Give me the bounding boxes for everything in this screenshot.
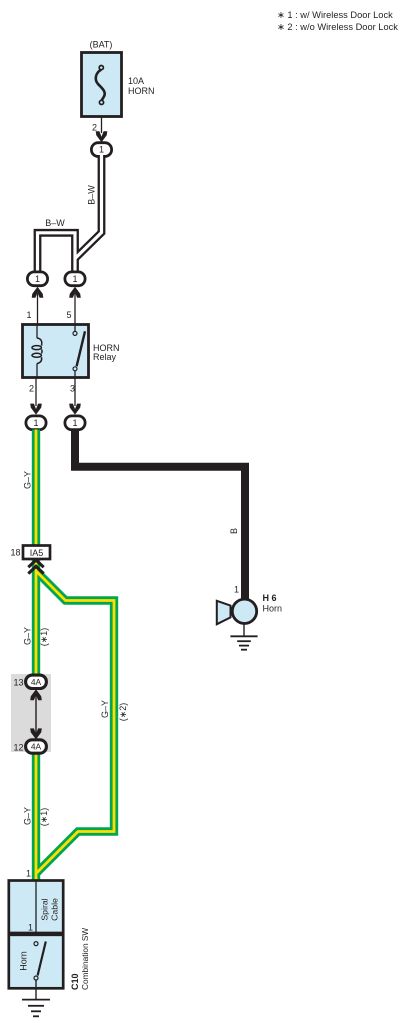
wire to relay pin 1 (37, 293, 39, 324)
horn trumpet (217, 601, 231, 624)
connector 1 (right, into relay pin 5) (65, 272, 85, 286)
svg-text:(BAT): (BAT) (90, 40, 113, 50)
svg-text:G–Y: G–Y (23, 627, 33, 645)
svg-text:12: 12 (13, 743, 23, 753)
svg-text:Spiral: Spiral (40, 898, 50, 920)
svg-text:Horn: Horn (19, 951, 29, 971)
wire relay pin 3 down (74, 378, 76, 407)
svg-text:G–Y: G–Y (23, 471, 33, 489)
svg-text:B: B (229, 528, 239, 534)
connector 4A top (26, 675, 47, 688)
wire B-W from fuse (thick outlined) (38, 155, 102, 272)
svg-text:Combination SW: Combination SW (80, 928, 90, 990)
connector 4A bottom (26, 740, 47, 753)
svg-text:1: 1 (72, 418, 77, 428)
horn switch contact (34, 942, 46, 1000)
svg-text:H 6: H 6 (263, 593, 277, 603)
horn circle (232, 599, 256, 623)
svg-text:(∗2): (∗2) (118, 703, 128, 722)
svg-text:C10: C10 (70, 973, 80, 990)
connector 1 (left, into relay pin 1) (27, 272, 47, 286)
connector 1 (relay pin2 out) (26, 416, 46, 430)
svg-text:(∗1): (∗1) (39, 628, 49, 647)
svg-text:Cable: Cable (50, 898, 60, 921)
svg-text:4A: 4A (31, 677, 42, 687)
svg-text:1: 1 (26, 310, 31, 320)
fuse 10A HORN box (82, 53, 122, 117)
arrow down into left connector (30, 404, 42, 415)
wire B (black) relay to horn (75, 430, 245, 600)
svg-text:1: 1 (35, 274, 40, 284)
arrow down into right connector (69, 404, 81, 415)
ground (horn) (230, 624, 257, 650)
svg-text:HORN: HORN (128, 86, 155, 96)
wire G-Y lower (4A to spiral cable) (32, 749, 40, 881)
svg-text:2: 2 (29, 384, 34, 394)
wire G-Y branch (*2 path) (36, 571, 114, 874)
svg-text:4A: 4A (31, 742, 42, 752)
spiral cable box (9, 881, 63, 934)
svg-text:1: 1 (72, 274, 77, 284)
svg-text:13: 13 (13, 678, 23, 688)
svg-text:18: 18 (10, 548, 20, 558)
svg-text:∗ 2 : w/o Wireless Door Lock: ∗ 2 : w/o Wireless Door Lock (277, 22, 398, 32)
svg-text:IA5: IA5 (30, 548, 44, 558)
svg-text:Horn: Horn (263, 604, 283, 614)
arrow up to left connector (32, 287, 44, 298)
svg-text:G–Y: G–Y (100, 700, 110, 718)
svg-text:B–W: B–W (87, 185, 97, 205)
svg-text:G–Y: G–Y (23, 807, 33, 825)
connector 1 (relay pin3 out) (65, 416, 85, 430)
wire to relay pin 5 (74, 293, 76, 324)
svg-text:3: 3 (70, 384, 75, 394)
svg-text:Relay: Relay (93, 352, 117, 362)
connector block 4A (gray) (11, 674, 51, 752)
wire G-Y main (relay to 4A) (32, 430, 40, 679)
relay U HORN Relay box (23, 325, 89, 378)
svg-text:1: 1 (234, 585, 239, 595)
arrow up to right connector (69, 287, 81, 298)
wire fuse lead (101, 117, 103, 134)
connector 1 (fuse output) (91, 143, 111, 157)
fuse element symbol (96, 66, 105, 105)
combination switch box (9, 935, 63, 989)
svg-text:10A: 10A (128, 76, 144, 86)
spiral cable internal wire (35, 881, 37, 942)
relay switch contact (73, 325, 85, 378)
wire relay pin 2 down (35, 378, 37, 407)
double ended arrow between 4A connectors (35, 692, 37, 736)
ground (combination switch) (22, 1000, 50, 1017)
svg-text:2: 2 (92, 123, 97, 133)
arrow into connector (96, 131, 108, 142)
svg-text:(∗1): (∗1) (39, 808, 49, 827)
svg-text:1: 1 (99, 145, 104, 155)
relay coil (32, 325, 42, 378)
svg-text:1: 1 (28, 923, 33, 933)
svg-text:∗ 1 : w/ Wireless Door Lock: ∗ 1 : w/ Wireless Door Lock (277, 10, 393, 20)
svg-text:B–W: B–W (45, 218, 65, 228)
double chevron junction mark (28, 560, 43, 574)
svg-text:5: 5 (66, 310, 71, 320)
svg-text:1: 1 (33, 418, 38, 428)
svg-text:1: 1 (26, 869, 31, 879)
